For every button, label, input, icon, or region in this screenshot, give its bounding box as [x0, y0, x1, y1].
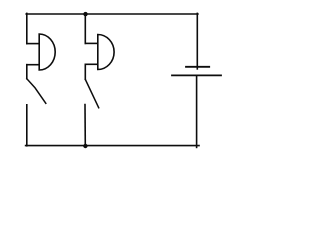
bell (middle): body, flat edge + dome [98, 35, 114, 70]
wire right vertical lower (battery to bottom rail) [196, 75, 198, 147]
wire middle vertical between bell 2 and switch 2 [84, 64, 86, 79]
wire middle vertical lower (switch 2 to bottom rail) [84, 105, 86, 146]
battery: negative plate (short) [186, 66, 209, 68]
switch S1 (open blade) [27, 79, 46, 104]
node junction dot bottom (middle branch to bottom rail) [83, 144, 87, 148]
wire left vertical lower (switch 1 to bottom rail) [26, 105, 28, 146]
node junction dot top (middle branch to top rail) [83, 12, 87, 16]
wire left vertical upper (top rail to bell 1) [26, 13, 28, 43]
switch S2 (open blade) [85, 79, 98, 108]
wire middle vertical upper (top rail to bell 2) [84, 14, 86, 43]
bell (middle): bottom terminal stub [85, 63, 97, 65]
bell (middle): top terminal stub [85, 42, 97, 44]
wire right vertical upper (top rail to battery) [196, 13, 198, 69]
wire left vertical between bell 1 and switch 1 [26, 65, 28, 79]
bell (left): body, flat edge + dome [39, 34, 55, 70]
wire bottom horizontal [26, 145, 199, 147]
bell (left): top terminal stub [27, 43, 39, 45]
bell (left): bottom terminal stub [27, 64, 39, 66]
battery: positive plate (long) [172, 74, 221, 76]
wire top horizontal [26, 13, 198, 15]
